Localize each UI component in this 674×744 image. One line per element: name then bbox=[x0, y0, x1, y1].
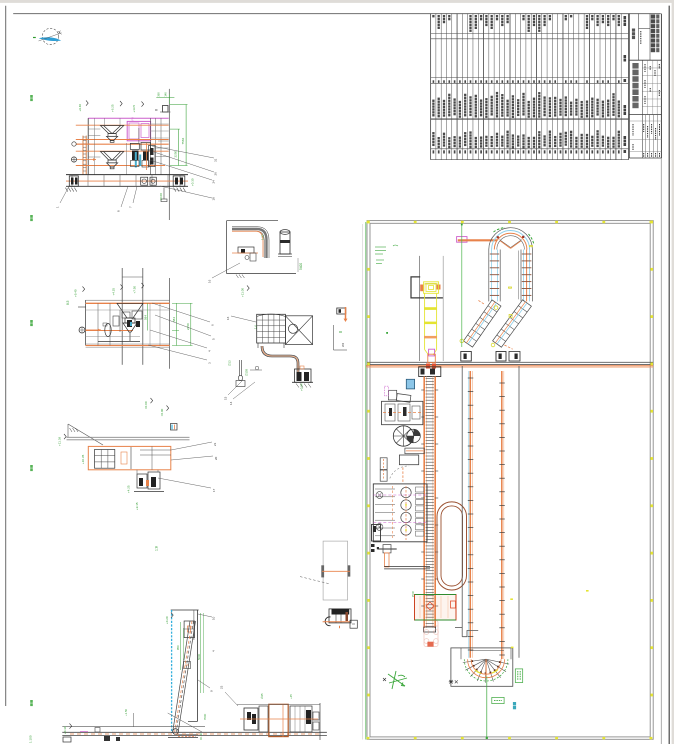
svg-text:23: 23 bbox=[220, 685, 224, 689]
plan interior column line B bbox=[442, 256, 444, 361]
east compass sketch green bbox=[388, 671, 407, 689]
svg-text:∅13: ∅13 bbox=[228, 360, 232, 366]
svg-text:360: 360 bbox=[157, 92, 161, 97]
plan orange feed line bbox=[458, 239, 497, 241]
storage pit orange box bbox=[415, 595, 457, 621]
view F orange room box bbox=[88, 446, 171, 469]
plan yellow circle markers bbox=[460, 246, 533, 347]
svg-text:15: 15 bbox=[224, 396, 228, 400]
view E mesh tank bbox=[257, 314, 286, 343]
view F roof slope lines bbox=[68, 424, 103, 445]
svg-text:+9.15: +9.15 bbox=[135, 502, 139, 510]
view H head box bbox=[184, 621, 194, 638]
svg-text:7000: 7000 bbox=[203, 713, 207, 720]
title block grid bbox=[629, 14, 661, 158]
title block drawing title vertical text bbox=[651, 15, 655, 53]
svg-text:+10.35: +10.35 bbox=[81, 454, 85, 464]
view I long floor lines bbox=[62, 727, 327, 736]
svg-text:20: 20 bbox=[214, 456, 218, 460]
view E left pipe assembly bbox=[236, 360, 262, 387]
svg-text:∅159: ∅159 bbox=[245, 368, 249, 376]
main vertical chain conveyor bbox=[424, 377, 435, 629]
desktop gray band right bbox=[672, 0, 674, 744]
loop ring conveyor bbox=[437, 502, 467, 590]
view H top line bbox=[171, 609, 199, 611]
view E labels and leaders bbox=[224, 316, 304, 405]
svg-text:+6.25: +6.25 bbox=[111, 104, 115, 112]
teal vertical annotation bbox=[513, 702, 516, 709]
cluster discharge bar bbox=[405, 448, 424, 454]
elevation B left bay shelf lines bbox=[88, 118, 169, 174]
view H mid-belt drive box bbox=[184, 662, 191, 669]
svg-text:140: 140 bbox=[164, 92, 168, 97]
wall chute box upper bbox=[372, 525, 381, 542]
sheet frame outer right line bbox=[668, 6, 670, 744]
svg-text:1.6: 1.6 bbox=[254, 325, 258, 329]
svg-text:±0.00: ±0.00 bbox=[159, 193, 163, 201]
elevation B hopper 2 bbox=[100, 152, 123, 169]
view F lower machine bbox=[134, 470, 164, 492]
U-turn right vertical belt run bbox=[521, 250, 532, 302]
U-turn inner guide line bbox=[518, 251, 520, 300]
plan orange chute box bbox=[426, 354, 436, 368]
svg-text:950: 950 bbox=[176, 645, 180, 650]
view H inclined belt lines bbox=[173, 621, 196, 733]
plan drum cleaner machine bbox=[420, 282, 440, 294]
elevation C green dims bbox=[144, 303, 193, 345]
plan magenta inlet box bbox=[457, 237, 467, 243]
svg-text:24: 24 bbox=[212, 180, 216, 184]
north arrow compass bbox=[33, 28, 62, 44]
slant conveyor orange guide dashes bbox=[478, 300, 512, 349]
elevation C sectional view bbox=[78, 268, 170, 369]
cluster machine A grinder bbox=[382, 401, 423, 424]
svg-text:21: 21 bbox=[213, 442, 217, 446]
svg-text:14: 14 bbox=[229, 401, 233, 405]
bucket elevator head box bbox=[419, 367, 441, 377]
plan magenta gate box bbox=[429, 349, 435, 356]
green label box below fan bbox=[492, 697, 504, 703]
paper left edge line bbox=[5, 6, 7, 706]
svg-text:8.5: 8.5 bbox=[66, 300, 70, 305]
drag conveyor enclosure lines bbox=[455, 366, 519, 658]
plan green vertical line through top bay bbox=[461, 225, 463, 348]
plan building outer walls bbox=[367, 221, 653, 740]
svg-text:16: 16 bbox=[208, 279, 212, 283]
tipper machine view bbox=[323, 609, 358, 628]
svg-text:584: 584 bbox=[144, 315, 148, 320]
view D hatching and dims bbox=[208, 234, 304, 283]
cluster bottom flange and pipe bbox=[377, 545, 430, 569]
svg-text:±0.00: ±0.00 bbox=[160, 408, 164, 416]
plan green dot marker bbox=[386, 332, 388, 334]
cluster blue tank bbox=[406, 379, 414, 389]
svg-text:+1.50: +1.50 bbox=[124, 708, 128, 716]
title block project big text bbox=[632, 63, 638, 108]
plan building left green grid line bbox=[365, 222, 367, 740]
elevation B base hatching and feet bbox=[65, 188, 185, 202]
svg-text:2250: 2250 bbox=[186, 323, 190, 330]
view I markers bbox=[63, 713, 202, 742]
view F cyan markers bbox=[171, 424, 178, 431]
main conveyor side flanges bbox=[421, 390, 438, 606]
plan interior column line A bbox=[418, 256, 420, 361]
plan middle wall orange utility line bbox=[366, 365, 653, 367]
cluster dashed quarter arc bbox=[390, 466, 409, 478]
svg-text:1:100: 1:100 bbox=[29, 735, 33, 743]
svg-text:584: 584 bbox=[172, 317, 176, 322]
svg-text:+4.25: +4.25 bbox=[112, 288, 116, 296]
left margin green view labels bbox=[30, 95, 33, 706]
view E down pipe bbox=[258, 343, 298, 378]
elevation B orange process lines bbox=[76, 125, 169, 165]
sheet frame top line bbox=[13, 13, 661, 15]
plan yellow bucket elevator shaft bbox=[424, 294, 437, 356]
elevation B hopper 1 bbox=[100, 126, 123, 143]
elevation B bucket elevator left bbox=[83, 136, 86, 175]
elevation B top vent box bbox=[155, 106, 171, 113]
elevation C hopper funnel bbox=[117, 303, 143, 341]
svg-text:+11.39: +11.39 bbox=[58, 437, 62, 446]
svg-text:+9.40: +9.40 bbox=[78, 104, 82, 112]
svg-text:±0.00: ±0.00 bbox=[144, 401, 148, 409]
view J labels bbox=[220, 685, 294, 706]
BOM table text entries bbox=[432, 15, 434, 17]
turn-around fan wheel bbox=[461, 648, 511, 683]
elevation C orange lines bbox=[86, 300, 170, 347]
svg-text:+0.20: +0.20 bbox=[165, 616, 169, 624]
view J mixer machine bbox=[237, 703, 320, 740]
truck plan view bbox=[300, 541, 350, 600]
svg-text:16: 16 bbox=[226, 316, 230, 320]
view D cylinder bbox=[278, 230, 292, 257]
svg-text:W2: W2 bbox=[341, 342, 345, 347]
yellow floor markers mid bay bbox=[510, 590, 588, 648]
elevation C leaders and labels bbox=[66, 300, 216, 364]
svg-text:2250: 2250 bbox=[174, 150, 178, 157]
elevation C extra structure lines bbox=[86, 277, 170, 346]
svg-text:FB: FB bbox=[131, 117, 135, 121]
svg-text:+45: +45 bbox=[289, 694, 293, 699]
view H green dims bbox=[165, 613, 207, 741]
view F leaders and labels bbox=[158, 442, 218, 492]
view I green labels bbox=[29, 708, 129, 743]
U-turn chute V bbox=[497, 236, 525, 249]
svg-text:+13.5: +13.5 bbox=[132, 105, 136, 113]
cluster machine D crumbler bbox=[373, 484, 427, 542]
elevation B base frame bbox=[66, 175, 188, 187]
elevation B feed circle and arrow bbox=[71, 142, 96, 162]
elevation B center machinery cluster bbox=[130, 143, 155, 171]
cluster sifter box bbox=[380, 455, 418, 481]
U-turn left vertical belt run bbox=[489, 250, 500, 302]
drag conveyor rail A bbox=[469, 371, 473, 658]
main conveyor foot bbox=[424, 627, 436, 632]
view E X-brace stand bbox=[285, 316, 312, 345]
cluster small feeder boxes bbox=[384, 386, 411, 402]
elevation C fan and motor bbox=[79, 323, 140, 342]
slant conveyor discharge boxes bbox=[461, 352, 520, 362]
plan building middle wall bbox=[367, 361, 653, 363]
svg-text:7584: 7584 bbox=[181, 137, 185, 144]
svg-text:31: 31 bbox=[214, 158, 218, 162]
view D pipe bend box bbox=[227, 221, 297, 274]
fan box asterisk mark bbox=[449, 680, 453, 684]
view E foot box bbox=[292, 366, 313, 388]
U-turn conveyor arch bbox=[489, 228, 534, 250]
svg-text:1:8: 1:8 bbox=[155, 546, 159, 551]
view F green labels bbox=[58, 406, 169, 511]
svg-text:∅45: ∅45 bbox=[260, 693, 264, 699]
wall door marks left wall bbox=[371, 544, 379, 552]
svg-text:17: 17 bbox=[212, 488, 216, 492]
svg-text:5400: 5400 bbox=[299, 263, 303, 270]
main conveyor rungs bbox=[426, 379, 434, 627]
plan site boundary faint line bbox=[362, 224, 364, 740]
BOM header column labels bbox=[624, 16, 627, 26]
cluster rotor fan B bbox=[393, 426, 420, 446]
svg-text:+4.25: +4.25 bbox=[127, 485, 131, 493]
svg-text:26: 26 bbox=[214, 172, 218, 176]
svg-text:+0.30: +0.30 bbox=[63, 726, 67, 734]
ghost truck outline bbox=[424, 621, 438, 647]
BOM parts-list table grid bbox=[431, 14, 629, 160]
view H tail pulley and ground bbox=[168, 729, 198, 738]
elevation B green top dims bbox=[156, 92, 174, 104]
svg-text:1.25: 1.25 bbox=[261, 234, 265, 240]
green plumb line below fan bbox=[486, 676, 488, 739]
view F floor band bbox=[67, 437, 190, 440]
slanted conveyor machine left bbox=[464, 300, 502, 347]
svg-text:10: 10 bbox=[212, 616, 216, 620]
plan partition bracket bbox=[411, 277, 443, 298]
title block small entries bbox=[633, 31, 660, 157]
svg-text:+11.00: +11.00 bbox=[241, 288, 245, 297]
svg-text:+7.50: +7.50 bbox=[133, 286, 137, 294]
sheet frame inner right line bbox=[660, 14, 662, 744]
svg-text:5000: 5000 bbox=[197, 653, 201, 660]
elevation B green level flags bbox=[78, 101, 195, 201]
elevation C green level flags bbox=[74, 283, 153, 409]
svg-text:+0.04: +0.04 bbox=[300, 383, 304, 391]
drag conveyor rail B bbox=[502, 371, 504, 659]
elevation B green dimensions right bbox=[170, 105, 188, 166]
svg-text:+9.40: +9.40 bbox=[74, 289, 78, 297]
view H cyan dashed column line bbox=[171, 610, 173, 733]
drag rail tick marks bbox=[468, 378, 505, 655]
cluster orange drop dashes bbox=[402, 467, 404, 482]
view H right frame lines bbox=[188, 610, 198, 721]
elevation B leader lines and labels bbox=[56, 146, 218, 212]
elevation B main machine view bbox=[88, 89, 169, 220]
view H labels bbox=[198, 614, 216, 692]
svg-text:PVC: PVC bbox=[411, 590, 415, 597]
title block design institute name bbox=[632, 29, 635, 40]
svg-text:+0.30: +0.30 bbox=[191, 178, 195, 186]
turn-around fan box bbox=[451, 648, 513, 686]
elevation C machinery cluster bbox=[113, 310, 142, 332]
desktop gray band top bbox=[0, 0, 674, 3]
svg-text:18: 18 bbox=[212, 197, 216, 201]
green label box right of fan bbox=[515, 669, 522, 683]
view G pump with arrow bbox=[334, 307, 348, 350]
truck red discharge marks bbox=[427, 642, 433, 647]
slanted conveyor machine right bbox=[493, 300, 532, 347]
plan top-left green legend marks bbox=[375, 245, 398, 264]
yellow column grid ticks bbox=[367, 221, 653, 740]
